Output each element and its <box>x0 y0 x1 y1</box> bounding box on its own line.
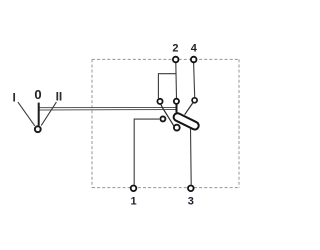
lever handle <box>38 103 40 126</box>
wire terminal4 to contact C <box>194 63 195 98</box>
lever position line I <box>18 102 35 126</box>
wire cam to terminal3 <box>190 128 193 184</box>
switch body dashed outline top edge <box>92 58 239 60</box>
cam rocker capsule <box>172 112 200 131</box>
terminal 1 <box>131 186 137 192</box>
switch body dashed outline right edge <box>238 59 240 187</box>
wire terminal2 to contact B <box>175 63 178 99</box>
svg-text:3: 3 <box>188 195 194 207</box>
switch body dashed outline left edge <box>91 59 93 187</box>
svg-text:II: II <box>56 89 63 103</box>
terminal 2 <box>173 57 179 63</box>
svg-text:4: 4 <box>191 43 198 55</box>
contact C <box>192 98 197 103</box>
svg-text:2: 2 <box>172 43 178 55</box>
lever pivot circle <box>35 126 41 132</box>
svg-text:0: 0 <box>34 87 41 102</box>
svg-text:I: I <box>13 90 16 104</box>
terminal 3 <box>188 186 194 192</box>
contact D <box>160 116 165 121</box>
contact A <box>157 99 162 104</box>
contact B <box>174 99 179 104</box>
push rod B to cam <box>176 104 178 113</box>
actuator double link line <box>39 107 176 109</box>
contact arm A to E <box>161 104 175 127</box>
contact arm C to cam <box>185 103 193 115</box>
wire terminal1 to contact D <box>134 119 159 185</box>
wire branch terminal2 to contact A <box>158 74 175 99</box>
contact E <box>174 125 180 131</box>
terminal 4 <box>191 57 197 63</box>
switch body dashed outline bottom edge <box>92 187 239 189</box>
svg-text:1: 1 <box>130 195 136 207</box>
lever position line II <box>41 102 56 126</box>
